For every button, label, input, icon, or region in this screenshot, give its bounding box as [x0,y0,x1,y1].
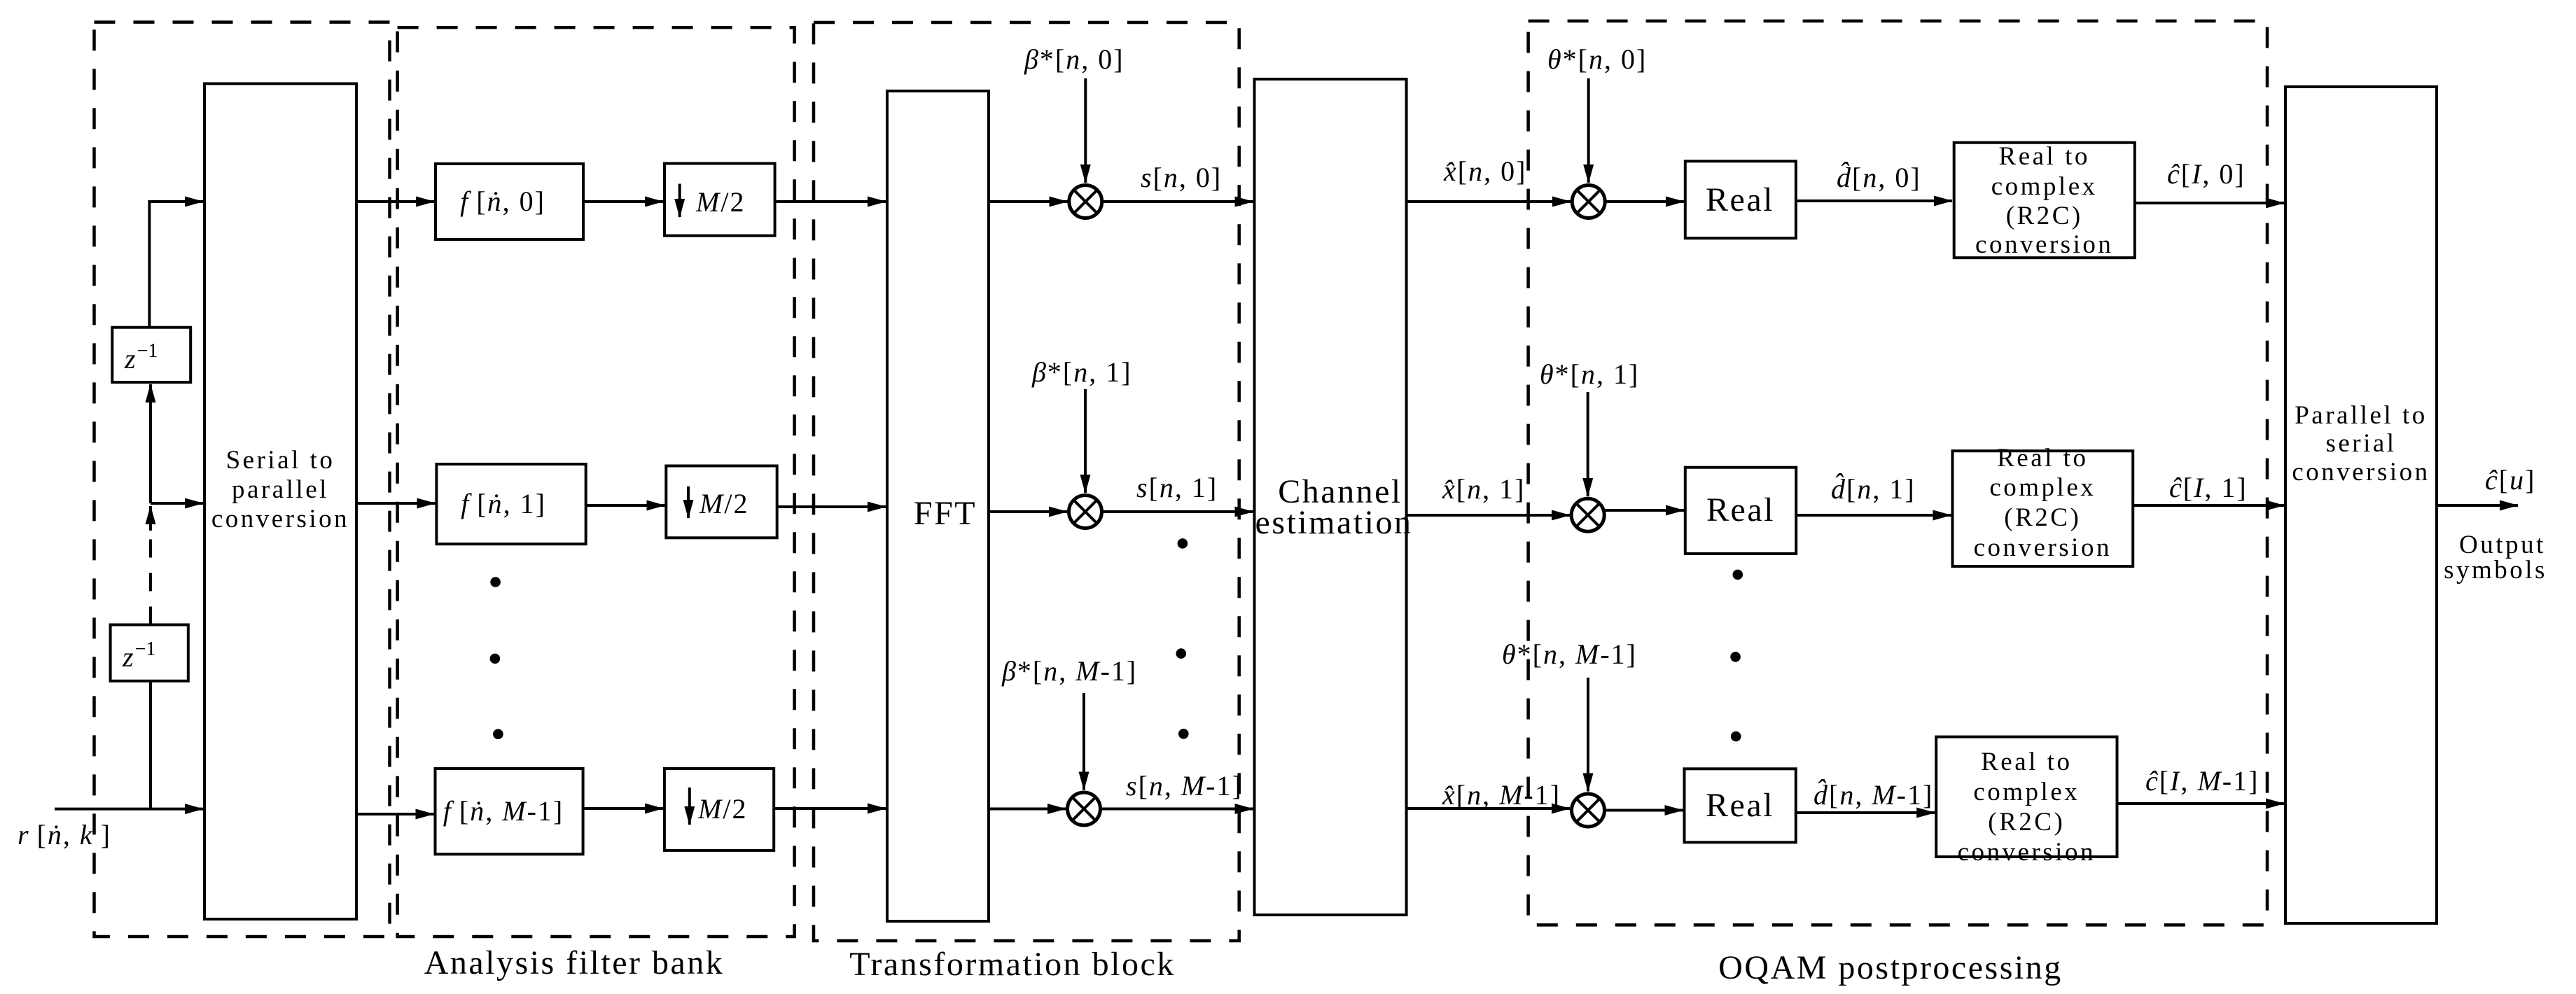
block: FFT [887,91,989,921]
svg-text:f [ṅ, 1]: f [ṅ, 1] [461,488,546,519]
svg-text:x̂[n, 1]: x̂[n, 1] [1442,473,1525,505]
svg-text:θ*[n, M-1]: θ*[n, M-1] [1502,638,1637,670]
dots: analysis filter bank column [490,577,503,739]
svg-text:β*[n, 0]: β*[n, 0] [1024,43,1125,75]
svg-text:M/2: M/2 [695,186,745,218]
multiplier (x) theta row M-1 [1572,794,1605,827]
multiplier (x) theta row 0 [1572,185,1605,218]
svg-text:Real to: Real to [1981,748,2072,776]
wire: theta*[n,M-1] coefficient arrow down [1587,678,1589,792]
dots: OQAM postprocessing column [1730,570,1743,742]
svg-text:d̂[n, 1]: d̂[n, 1] [1831,473,1916,505]
block: Channel estimation [1255,79,1407,915]
svg-text:d̂[n, M-1]: d̂[n, M-1] [1813,779,1933,811]
wire: multiplier beta0 to channel estimation, label s[n,0] [1102,200,1253,203]
svg-text:conversion: conversion [211,505,349,533]
wire: junction up to lower z^-1 [149,681,152,809]
block: filter f[n-dot, 0] [436,164,583,239]
svg-text:(R2C): (R2C) [1988,808,2065,836]
block: downsampler M/2 (row 1) [666,466,777,538]
block: downsampler M/2 (row 0) [664,164,775,236]
block: Real to complex (R2C) conversion (row 0) [1954,143,2135,258]
svg-text:estimation: estimation [1255,504,1413,541]
svg-text:s[n, 1]: s[n, 1] [1136,472,1218,503]
svg-text:M/2: M/2 [699,488,749,519]
block: Parallel to serial conversion [2285,87,2437,923]
svg-text:M/2: M/2 [697,793,747,825]
wire: multiplier beta2 to channel estimation, label s[n,M-1] [1101,808,1253,811]
wire: channel estimation to multiplier theta1, label x-hat[n,1] [1407,514,1570,517]
svg-text:f [ṅ, 0]: f [ṅ, 0] [460,185,545,217]
block: Real to complex (R2C) conversion (row 1) [1953,451,2133,566]
svg-text:ĉ[u]: ĉ[u] [2485,464,2535,496]
svg-text:Real to: Real to [1997,444,2088,472]
dashed container: transformation block section [814,22,1239,941]
svg-text:Output: Output [2459,531,2546,559]
wire: beta*[n,0] coefficient arrow down [1084,78,1087,183]
block: Serial to parallel conversion [204,84,356,920]
svg-text:Real: Real [1706,181,1774,218]
wire: multiplier theta1 to Real block row1 [1604,509,1684,512]
wire: FFT to multiplier beta0 [989,200,1068,203]
multiplier (x) theta row 1 [1571,498,1604,531]
wire: middle tap up into upper z^-1 (arrow up) [149,384,152,503]
svg-text:x̂[n, M-1]: x̂[n, M-1] [1442,779,1561,811]
svg-text:θ*[n, 0]: θ*[n, 0] [1547,43,1647,75]
svg-text:complex: complex [1973,778,2080,806]
svg-text:serial: serial [2325,429,2396,458]
svg-text:β*[n, M-1]: β*[n, M-1] [1001,655,1137,687]
svg-text:ĉ[I, 1]: ĉ[I, 1] [2169,472,2248,503]
delay block z^-1 (upper) [112,328,190,382]
svg-text:ĉ[I, M-1]: ĉ[I, M-1] [2145,765,2259,797]
wire: output c[u] from parallel-to-serial [2437,504,2518,507]
wire: Real row1 to R2C row1, label d-hat[n,1] [1796,514,1951,517]
block: filter f[n-dot, M-1] [436,769,583,854]
wire: multiplier theta0 to Real block [1605,200,1684,203]
svg-text:(R2C): (R2C) [2004,503,2081,532]
svg-text:Transformation block: Transformation block [849,946,1176,983]
svg-text:symbols: symbols [2444,556,2547,584]
multiplier (x) beta row 0 [1069,185,1102,218]
svg-text:conversion: conversion [1974,533,2112,562]
svg-text:conversion: conversion [1975,230,2113,259]
wire: multiplier beta1 to channel estimation, label s[n,1] [1102,510,1253,513]
svg-text:x̂[n, 0]: x̂[n, 0] [1443,155,1526,187]
multiplier (x) beta row M-1 [1068,792,1101,825]
svg-text:r [ṅ, k ]: r [ṅ, k ] [18,819,111,850]
svg-text:Serial to: Serial to [226,446,335,475]
svg-text:complex: complex [1991,172,2098,201]
block: Real (row M-1) [1685,769,1796,842]
wire: f[n,1] to downsampler row1 [586,504,665,507]
wire: S/P to filter f[n,1] [356,502,435,505]
svg-text:ĉ[I, 0]: ĉ[I, 0] [2167,158,2246,190]
wire: R2C row0 to parallel-to-serial, label c-hat[I,0] [2135,202,2284,204]
wire: R2C row1 to parallel-to-serial, label c-hat[I,1] [2133,504,2284,507]
svg-text:OQAM postprocessing: OQAM postprocessing [1718,949,2062,986]
wire: f[n,0] to downsampler [583,200,663,203]
svg-text:Real: Real [1706,787,1774,824]
svg-text:conversion: conversion [1958,838,2096,867]
wire: downsampler row2 to FFT [774,807,886,810]
dots: transformation block column [1176,538,1189,738]
wire: f[n,M-1] to downsampler row2 [583,807,663,810]
wire: middle tap into serial-to-parallel [151,502,203,505]
svg-text:Parallel to: Parallel to [2295,401,2428,430]
svg-text:conversion: conversion [2292,458,2430,486]
block: Real to complex (R2C) conversion (row M-1) [1936,737,2117,857]
svg-text:Real to: Real to [1999,142,2090,171]
svg-text:s[n, M-1]: s[n, M-1] [1126,770,1243,801]
delay block z^-1 (lower) [111,625,188,681]
svg-text:Analysis filter bank: Analysis filter bank [424,944,725,981]
wire: beta*[n,1] coefficient arrow down [1084,389,1087,493]
svg-text:Real: Real [1706,491,1775,528]
wire: Real row2 to R2C row2, label d-hat[n,M-1] [1796,811,1935,814]
svg-text:β*[n, 1]: β*[n, 1] [1031,356,1132,388]
wire: R2C row2 to parallel-to-serial, label c-hat[I,M-1] [2117,802,2285,805]
wire: upper z^-1 to top tap into serial-to-parallel [149,202,203,328]
wire: channel estimation to multiplier theta2, label x-hat[n,M-1] [1407,807,1570,810]
svg-text:θ*[n, 1]: θ*[n, 1] [1540,358,1639,390]
svg-text:f [ṅ, M-1]: f [ṅ, M-1] [443,795,564,827]
wire: input r[n,k] into serial-to-parallel [55,808,203,811]
svg-text:parallel: parallel [232,475,329,504]
svg-text:(R2C): (R2C) [2006,202,2083,230]
dashed container: serial-to-parallel section [95,22,390,937]
wire: multiplier theta2 to Real block row2 [1605,809,1683,812]
wire: FFT to multiplier beta1 [989,510,1067,513]
svg-text:d̂[n, 0]: d̂[n, 0] [1837,162,1921,193]
block: Real (row 0) [1685,161,1796,238]
svg-text:FFT: FFT [914,495,977,532]
block: downsampler M/2 (row 2) [664,769,774,850]
wire: FFT to multiplier beta2 [989,808,1066,811]
wire: theta*[n,0] coefficient arrow down [1587,78,1590,183]
wire: theta*[n,1] coefficient arrow down [1587,392,1589,496]
block: Real (row 1) [1685,468,1796,554]
dashed container: OQAM postprocessing section [1529,21,2267,925]
multiplier (x) beta row 1 [1069,496,1102,528]
dashed container: analysis filter bank section [398,27,795,937]
svg-text:complex: complex [1989,473,2096,502]
svg-text:s[n, 0]: s[n, 0] [1141,162,1222,193]
wire: S/P to filter f[n,0] [356,200,434,203]
dashed wire: lower z^-1 up to middle tap (arrow up) [149,529,152,625]
wire: downsampler row0 to FFT [775,200,886,203]
wire: downsampler row1 to FFT [777,505,886,508]
block: filter f[n-dot, 1] [436,464,585,544]
wire: S/P to filter f[n,M-1] [356,813,434,815]
wire: Real row0 to R2C, label d-hat[n,0] [1796,199,1952,202]
wire: beta*[n,M-1] coefficient arrow down [1082,693,1085,790]
wire: channel estimation to multiplier theta0, label x-hat[n,0] [1407,200,1571,203]
